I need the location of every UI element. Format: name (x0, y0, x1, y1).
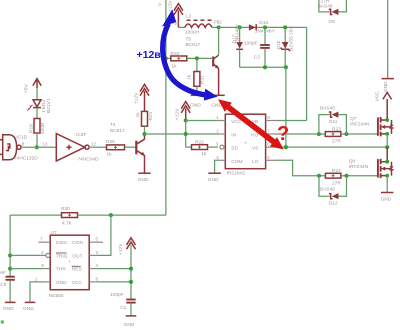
svg-text:HO: HO (251, 132, 258, 138)
pin 1 GND (35, 276, 50, 282)
ground (COM) (208, 173, 221, 183)
ground (C1) (124, 316, 137, 328)
pin 6 THR (42, 263, 51, 269)
svg-text:BC817: BC817 (186, 42, 201, 48)
wire: VS row / phase node (278, 146, 388, 148)
wire: Q8 source down (386, 176, 388, 192)
svg-text:74HC04D: 74HC04D (78, 156, 100, 162)
svg-text:100pF: 100pF (110, 292, 124, 298)
wire: LO route (278, 160, 326, 175)
diode D18 1N4148Y (249, 20, 276, 34)
annotation red double arrow (218, 99, 284, 149)
diode D12 BAS40 (bypass) (319, 176, 347, 207)
svg-text:R31: R31 (200, 75, 206, 84)
supply +12V (VCC feed) (174, 102, 190, 121)
svg-text:R32: R32 (171, 51, 180, 57)
ground (Q8 source) (381, 193, 394, 203)
op-amp U7 NE555 box (49, 230, 89, 299)
node: T4 collector junction (143, 132, 147, 136)
pin 2 IN (216, 129, 225, 135)
svg-text:VCC: VCC (72, 280, 83, 286)
svg-text:D12: D12 (329, 201, 338, 207)
resistor R18 520R (29, 119, 46, 135)
svg-text:BAS40: BAS40 (320, 105, 335, 111)
node (238, 25, 242, 29)
svg-text:GND: GND (138, 177, 149, 183)
wire: VB row (278, 120, 307, 122)
wire: VS drop (bootstrap bottom to VS) (285, 67, 287, 147)
svg-text:1k: 1k (187, 74, 193, 80)
svg-text:GND: GND (23, 306, 34, 312)
op-amp U2 IR2104S box (225, 114, 265, 176)
svg-text:R22: R22 (195, 140, 204, 146)
wire (178, 26, 184, 28)
resistor R30 4.7k (61, 206, 78, 227)
resistor R32 1k (166, 51, 187, 69)
svg-text:COM: COM (231, 159, 242, 165)
svg-text:GND: GND (381, 196, 392, 202)
resistor R24 27R (325, 168, 341, 187)
resistor R21 1k (pull-up) (135, 111, 154, 126)
wire: feedback row (10, 214, 61, 216)
svg-text:R18: R18 (29, 124, 35, 133)
wire (78, 214, 166, 216)
wire: OUT up to feedback (98, 215, 111, 255)
svg-text:GND: GND (190, 102, 201, 108)
wire (36, 108, 38, 119)
svg-text:IC1D: IC1D (16, 134, 27, 140)
nand gate IC1D 74HC132D (0, 134, 38, 161)
svg-text:DISC: DISC (56, 240, 68, 246)
svg-text:B21V1: B21V1 (46, 98, 52, 113)
supply +12V (above R21) (133, 84, 149, 111)
node (385, 118, 389, 122)
wire (+12V down to IN row and R22) (186, 121, 192, 148)
svg-text:4.7k: 4.7k (62, 220, 72, 226)
wire: Q7 source to phase (386, 134, 388, 147)
svg-text:1N4148Y: 1N4148Y (235, 23, 241, 44)
node (385, 132, 389, 136)
node: stray dot bottom left (1, 320, 4, 323)
wire (36, 88, 38, 100)
wire: VCC to +12V (98, 281, 131, 283)
pin 5 CON (89, 237, 103, 243)
wire (24, 146, 57, 148)
ground (C6) (3, 302, 16, 311)
transistor Q8 IRFZ44N (349, 147, 394, 178)
supply +12V (L2 feed) (168, 0, 183, 27)
svg-text:CON: CON (72, 240, 83, 246)
svg-text:R23: R23 (332, 126, 341, 132)
diode D17 1N4148Y (231, 23, 243, 67)
svg-text:SD: SD (231, 146, 238, 152)
resistor R22 1k (192, 140, 208, 157)
wire: R32 to T5 base (187, 57, 213, 59)
node (345, 174, 349, 178)
resistor (cut) + diode D9 BAS40 (318, 0, 347, 25)
svg-text:IC3F: IC3F (76, 132, 86, 138)
ground (R31) (190, 95, 203, 108)
svg-text:74HC132D: 74HC132D (14, 156, 38, 162)
wire: RES to +12V (98, 268, 131, 270)
supply +5V (24, 79, 42, 93)
wire: THR (10, 268, 44, 270)
pin 8 VCC (89, 276, 98, 282)
svg-text:27R: 27R (332, 139, 341, 145)
pin 2 TRIG (inverted) (41, 250, 50, 258)
svg-text:D16: D16 (276, 40, 282, 49)
svg-text:IRFZ44N: IRFZ44N (350, 122, 370, 128)
wire R21 to IN row (144, 126, 146, 134)
node (284, 65, 288, 69)
node: VS junction (284, 145, 288, 149)
transistor Q7 IRFZ44N (350, 99, 394, 136)
LED LED4 B21V1 (26, 98, 52, 113)
svg-text:BC817: BC817 (110, 128, 125, 134)
svg-text:Q7: Q7 (350, 116, 357, 122)
node (317, 132, 321, 136)
wire: TRIG (10, 254, 46, 256)
svg-text:NE555: NE555 (49, 293, 64, 299)
node (385, 174, 389, 178)
capacitor stub + ground (top right) (382, 0, 394, 92)
svg-text:BAS40: BAS40 (318, 4, 333, 10)
svg-text:+5V: +5V (24, 84, 30, 93)
svg-text:RES: RES (72, 267, 82, 273)
svg-text:BZV55 15V: BZV55 15V (289, 26, 295, 51)
svg-text:+12в: +12в (137, 49, 162, 61)
svg-text:P$2: P$2 (214, 19, 223, 24)
svg-text:100nF: 100nF (0, 270, 6, 276)
svg-text:100pF: 100pF (244, 40, 258, 46)
svg-text:Q8: Q8 (349, 158, 356, 164)
annotation blue curved arrow (162, 9, 218, 100)
node (8, 253, 12, 257)
svg-text:?: ? (277, 123, 289, 145)
pin 1 VCC (216, 115, 225, 121)
svg-text:+12V: +12V (174, 108, 180, 120)
svg-text:R21: R21 (148, 111, 154, 120)
svg-text:IRFZ44N: IRFZ44N (349, 164, 369, 170)
pin 8 VB (266, 115, 278, 121)
svg-text:VS: VS (252, 146, 258, 152)
svg-text:L2: L2 (186, 13, 192, 19)
node: OUT tap (109, 213, 113, 217)
svg-text:D18: D18 (259, 20, 268, 26)
wire: VB feed drop (306, 27, 308, 120)
node (385, 160, 389, 164)
pin 4 RES (89, 263, 98, 269)
pin 7 HO (266, 129, 278, 135)
svg-text:100uH: 100uH (185, 30, 200, 36)
wire (341, 175, 377, 177)
transistor T5 BC817 (186, 36, 220, 95)
svg-text:GND: GND (56, 280, 67, 286)
wire: 555 GND pin (30, 282, 44, 302)
resistor R23 27R (325, 126, 341, 144)
node (263, 65, 267, 69)
pin 3 SD (inverted) (216, 142, 226, 150)
svg-text:1k: 1k (201, 151, 207, 157)
supply +12V (555) (118, 238, 136, 299)
pin 5 LO (266, 155, 278, 161)
ground (T4 emitter) (138, 173, 151, 183)
svg-text:GND: GND (124, 322, 135, 328)
svg-text:TRIG: TRIG (56, 253, 68, 259)
svg-text:+12V: +12V (118, 243, 124, 255)
node: R32 tap (164, 56, 168, 60)
node (344, 132, 348, 136)
svg-text:IR2104S: IR2104S (227, 170, 246, 176)
transistor T4 BC817 (110, 122, 145, 173)
node (184, 132, 188, 136)
node: R31 tap (195, 56, 199, 60)
svg-text:THR: THR (56, 267, 66, 273)
svg-text:OUT: OUT (72, 253, 82, 259)
node (8, 267, 12, 271)
wire (92, 146, 107, 148)
ground (555 pin1) (23, 302, 35, 311)
wire (208, 146, 218, 148)
diode D11 BAS40 (bypass) (319, 105, 347, 134)
wire COM to ground (215, 160, 220, 172)
svg-text:+: + (244, 141, 247, 146)
svg-text:27R: 27R (332, 180, 341, 186)
svg-text:T5: T5 (186, 36, 192, 42)
wire (341, 133, 378, 135)
resistor R20 1k (106, 139, 125, 157)
svg-text:R24: R24 (332, 168, 341, 174)
pin 4 COM (216, 155, 225, 161)
svg-text:R20: R20 (106, 139, 115, 145)
pin 6 VS (266, 142, 278, 148)
svg-text:C6: C6 (0, 282, 6, 288)
node (317, 174, 321, 178)
wire (36, 133, 38, 147)
svg-text:13: 13 (43, 142, 49, 147)
resistor R31 1k (187, 58, 206, 95)
svg-text:C3: C3 (254, 55, 260, 61)
svg-text:BAS40: BAS40 (320, 187, 335, 193)
node (129, 267, 133, 271)
wire (125, 146, 137, 148)
node: LED/gate-output junction (35, 145, 39, 149)
svg-text:C1: C1 (120, 305, 126, 311)
wire: long vertical net from top (165, 0, 167, 215)
svg-text:+12V: +12V (133, 92, 139, 104)
svg-text:T4: T4 (110, 122, 116, 128)
svg-text:1k: 1k (107, 151, 113, 157)
svg-text:D9: D9 (329, 19, 335, 25)
svg-text:12: 12 (91, 141, 97, 146)
wire: HO row (278, 133, 326, 135)
svg-text:+: + (68, 260, 71, 265)
wire: left feedback drop (9, 215, 11, 276)
svg-text:LO: LO (252, 159, 259, 165)
svg-text:1k: 1k (172, 63, 178, 69)
svg-text:GND: GND (3, 306, 14, 312)
capacitor C6 100nF (0, 270, 15, 302)
svg-text:R30: R30 (61, 206, 70, 212)
node (263, 25, 267, 29)
svg-text:IN: IN (231, 132, 236, 138)
node: +12V/VCC junction (184, 119, 188, 123)
pin 3 OUT (89, 250, 98, 256)
inductor L2 100uH (172, 13, 223, 35)
wire: T5 collector drop (218, 27, 220, 55)
svg-text:GND: GND (208, 177, 219, 183)
wire IN row (145, 133, 220, 135)
svg-text:+12V: +12V (168, 0, 174, 12)
svg-text:520R: 520R (40, 122, 46, 134)
supply VCC (Q7 drain) (375, 91, 392, 102)
node (283, 25, 287, 29)
svg-text:D11: D11 (329, 119, 338, 125)
svg-text:VCC: VCC (375, 91, 381, 102)
pin 7 DISC (39, 237, 51, 243)
node (129, 280, 133, 284)
wire: bootstrap bottom (240, 66, 286, 68)
capacitor C1 100pF (110, 292, 136, 315)
zener D16 BZV55 15V (276, 26, 295, 68)
svg-text:1k: 1k (135, 112, 141, 118)
svg-text:U7: U7 (51, 230, 57, 236)
capacitor C3 100pF (244, 27, 270, 67)
ground (T5 emitter) (211, 95, 224, 108)
node: phase at Q7/Q8 (385, 145, 389, 149)
wire: rail to bootstrap (212, 26, 307, 28)
svg-text:GND: GND (383, 81, 389, 92)
inverter IC3F 74HC04D (56, 132, 99, 162)
wire VCC row (186, 120, 220, 122)
node (217, 25, 221, 29)
